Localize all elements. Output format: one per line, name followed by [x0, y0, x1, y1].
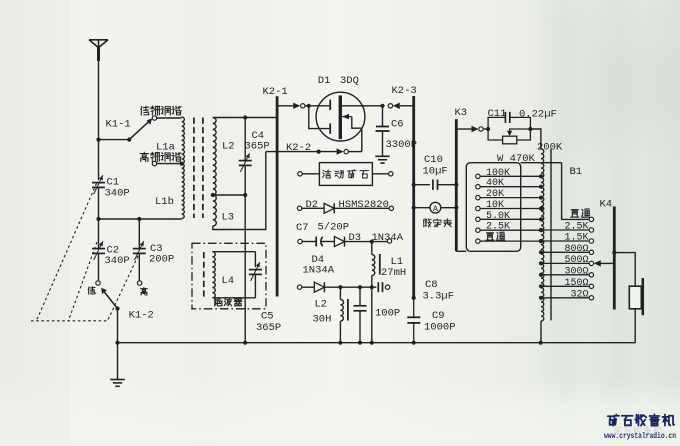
svg-text:K2-1: K2-1 [263, 86, 288, 98]
svg-text:C11: C11 [488, 108, 507, 120]
svg-text:200K: 200K [537, 141, 563, 153]
svg-text:0.22µF: 0.22µF [519, 109, 557, 121]
svg-text:340P: 340P [105, 188, 130, 200]
svg-text:3.3µF: 3.3µF [423, 291, 455, 303]
svg-text:5.0K: 5.0K [486, 211, 510, 222]
watermark 矿石收音机 [608, 414, 619, 425]
tap 2.5K [541, 229, 589, 231]
svg-text:C5: C5 [261, 311, 274, 323]
node C8 [412, 296, 416, 300]
svg-text:L3: L3 [222, 212, 235, 224]
inductor L1b [182, 164, 185, 219]
svg-text:B1: B1 [570, 166, 583, 178]
tap 150Ω [541, 285, 589, 287]
plug K2-2 [337, 148, 344, 154]
selector box left [466, 163, 520, 252]
RC block C11/W [486, 127, 490, 131]
capacitor C2 (variable) [98, 219, 100, 248]
svg-text:20K: 20K [486, 189, 504, 200]
wire speaker to bus [634, 309, 636, 343]
dashed gang line C1 [37, 184, 97, 321]
core dash L4 [203, 252, 205, 298]
node C1/C2 [96, 217, 100, 221]
box 活动矿石 [319, 163, 372, 186]
wire L1 line to bus [371, 287, 373, 343]
svg-text:800Ω: 800Ω [564, 244, 588, 255]
wire C4 down through trap [244, 165, 246, 342]
transistor D1 (dual-gate MOSFET) [316, 92, 365, 141]
svg-text:L2: L2 [222, 141, 235, 153]
wire antenna down [98, 60, 100, 180]
tap 32Ω [541, 297, 589, 299]
diode D2 row [297, 206, 301, 210]
svg-text:C7: C7 [296, 222, 309, 234]
svg-text:100K: 100K [486, 168, 510, 179]
wire bottom bus [118, 342, 636, 344]
transformer B1 winding [541, 149, 544, 321]
inductor L2 [213, 118, 216, 196]
svg-text:32Ω: 32Ω [570, 289, 588, 300]
plug K3 [456, 128, 471, 130]
capacitor C4 (variable) [244, 118, 246, 161]
svg-text:A: A [433, 204, 439, 214]
plug K2-1 [293, 103, 300, 109]
svg-text:3300P: 3300P [386, 139, 418, 151]
svg-text:2.5K: 2.5K [564, 222, 588, 233]
wire D1 source/substrate [342, 116, 352, 118]
svg-text:www.crystalradio.cn: www.crystalradio.cn [604, 432, 676, 441]
K4 plug arrow at 500ohm [599, 262, 615, 264]
capacitor C3 (variable) [138, 219, 140, 248]
inductor L3 [213, 195, 217, 226]
switch K1-2 arm [104, 292, 117, 309]
svg-text:K1-2: K1-2 [129, 310, 154, 322]
svg-text:HSMS2820: HSMS2820 [339, 199, 389, 211]
wire L3 bottom [213, 152, 266, 230]
svg-text:365P: 365P [245, 141, 270, 153]
wire K2-1 row [277, 105, 293, 107]
svg-text:L4: L4 [222, 275, 235, 287]
svg-text:340P: 340P [105, 255, 130, 267]
label 低端调谐 [141, 106, 149, 115]
watermark ghost [614, 427, 662, 435]
node C3 branch [137, 217, 141, 221]
node K2-2 [317, 150, 321, 154]
label 低 inverted [88, 287, 95, 294]
svg-text:3DQ: 3DQ [340, 75, 359, 87]
switch K1-1 arm [129, 121, 149, 139]
transformer core dashes [193, 118, 195, 219]
node C6 [380, 104, 384, 108]
speaker/earphone B [629, 286, 641, 309]
bus K4 [613, 207, 616, 310]
svg-text:150Ω: 150Ω [564, 278, 588, 289]
output coupling cap row3 [377, 282, 379, 292]
svg-text:C8: C8 [425, 279, 438, 291]
wire B1 bottom [540, 321, 542, 343]
tap 300Ω [541, 274, 589, 276]
svg-text:D1: D1 [318, 75, 331, 87]
tap 直通 right [589, 217, 593, 221]
tap 5.0K [476, 217, 480, 221]
label 微安表 [423, 219, 431, 227]
capacitor C10 [412, 183, 416, 187]
pot wiper arrow [510, 129, 531, 131]
svg-text:C6: C6 [391, 119, 404, 131]
svg-text:365P: 365P [256, 322, 281, 334]
contact high (C3) [137, 281, 141, 285]
node L2 branch [338, 285, 342, 289]
crystal holder terminals [298, 172, 302, 176]
svg-text:200P: 200P [149, 254, 174, 266]
svg-text:D3: D3 [349, 232, 362, 244]
wire B1 bypass (enclosure) [521, 162, 562, 164]
bus K2-3 [412, 96, 415, 298]
wire RC to B1 top [530, 129, 541, 149]
tap 800Ω [541, 251, 589, 253]
node L1a/L1b tap [180, 162, 184, 166]
svg-text:1000P: 1000P [424, 322, 456, 334]
trap box (dash-dot) [192, 243, 266, 308]
svg-text:K3: K3 [455, 107, 468, 119]
wire L2 bottom to C4 [213, 194, 245, 196]
svg-text:1N34A: 1N34A [372, 232, 404, 244]
inductor L1a [182, 117, 185, 164]
wire K3 to selector box [456, 250, 466, 252]
capacitor C1 (variable) [92, 182, 105, 184]
tap 20K [476, 195, 480, 199]
tap 2.5K [476, 228, 480, 232]
tap 10K [476, 206, 480, 210]
svg-text:5/20P: 5/20P [318, 222, 350, 234]
trap loop bottom wire [212, 297, 255, 299]
wire K2-2 row [266, 151, 337, 153]
ground C6 [375, 155, 389, 157]
tap 直通 left [476, 239, 480, 243]
svg-text:D2: D2 [306, 199, 319, 211]
ground [110, 379, 124, 381]
antenna [89, 40, 108, 48]
node L2/L3 [211, 193, 215, 197]
capacitor C5 (variable) [254, 252, 256, 267]
label 陷波器 inverted [215, 298, 222, 306]
diode D4 row [297, 285, 301, 289]
svg-text:K2-3: K2-3 [392, 85, 417, 97]
node L1 bottom [370, 285, 374, 289]
tap 500Ω [541, 262, 589, 264]
meter A (microammeter) [412, 206, 416, 210]
wire tank top [213, 117, 277, 119]
svg-text:500Ω: 500Ω [564, 255, 588, 266]
svg-text:10µF: 10µF [423, 166, 448, 178]
inductor L1 27mH [371, 242, 373, 255]
capacitor C6 [382, 106, 384, 127]
wire contact to L1a [157, 117, 182, 119]
contact high-end [152, 161, 156, 165]
svg-text:L1b: L1b [155, 196, 174, 208]
tap 40K [476, 185, 480, 189]
tap 1.5K [541, 240, 589, 242]
svg-text:L2: L2 [315, 299, 328, 311]
wire C1 bottom [98, 187, 100, 219]
dashed gang line C3/K1-2 [108, 256, 139, 321]
svg-text:K4: K4 [600, 199, 613, 211]
capacitor C9 [413, 298, 415, 317]
dashed gang line C2 [69, 242, 98, 321]
contact low-end [152, 116, 156, 120]
svg-text:C9: C9 [432, 310, 445, 322]
wire contact to L1ab tap [157, 163, 182, 165]
wire gate tie [309, 106, 330, 129]
node K1-2/bus [115, 341, 119, 345]
trap loop top wire [212, 251, 255, 253]
wire K4 to speaker [612, 251, 616, 255]
bus K3 [455, 119, 458, 251]
wire bottom of L1b row [99, 218, 182, 220]
label 高端调谐 [140, 152, 148, 161]
tap 100K [476, 174, 480, 178]
svg-text:30H: 30H [313, 314, 332, 326]
node C4 top [243, 115, 247, 119]
svg-text:C10: C10 [424, 154, 443, 166]
inductor L4 [212, 252, 215, 298]
capacitor C7 + diode D3 row [298, 239, 302, 243]
dashed gang line horizontal [31, 320, 108, 322]
svg-text:K2-2: K2-2 [286, 142, 311, 154]
label 高 inverted [141, 288, 148, 296]
core line B1 [550, 149, 552, 320]
svg-text:K1-1: K1-1 [106, 119, 131, 131]
node D3/L1 [370, 240, 374, 244]
wire to K1-1 [99, 139, 130, 141]
inductor L2 30H [339, 287, 341, 299]
svg-text:1.5K: 1.5K [564, 233, 588, 244]
plug K2-3 [388, 104, 392, 108]
svg-text:100P: 100P [375, 308, 400, 320]
contact low (C2) [96, 281, 100, 285]
wire D1 drain [342, 105, 383, 107]
capacitor 100P [359, 287, 361, 306]
node antenna/K1-1 junction [96, 138, 100, 142]
bus K2 panel [276, 96, 279, 296]
svg-text:40K: 40K [486, 178, 504, 189]
wire K1-2 to ground bus [117, 309, 119, 380]
svg-text:27mH: 27mH [381, 267, 406, 279]
svg-text:300Ω: 300Ω [564, 266, 588, 277]
svg-text:1N34A: 1N34A [303, 265, 335, 277]
svg-text:10K: 10K [486, 200, 504, 211]
node gate tie [307, 104, 311, 108]
node 100P branch [358, 285, 362, 289]
svg-text:2.5K: 2.5K [486, 222, 510, 233]
svg-text:L1a: L1a [156, 142, 175, 154]
